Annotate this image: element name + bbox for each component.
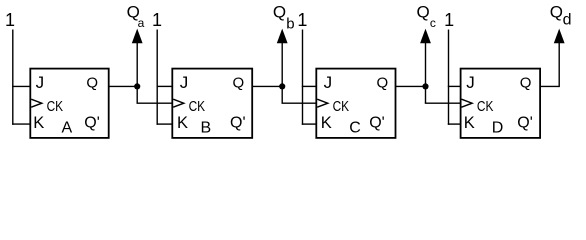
svg-text:c: c bbox=[430, 16, 436, 30]
junction dot (C) bbox=[422, 83, 428, 89]
wire: Q output (D) bbox=[540, 85, 559, 87]
svg-text:1: 1 bbox=[152, 10, 162, 30]
svg-text:D: D bbox=[492, 119, 504, 136]
svg-text:Q: Q bbox=[377, 75, 389, 92]
svg-text:CK: CK bbox=[47, 99, 64, 115]
svg-text:K: K bbox=[321, 114, 332, 132]
wire: output arrow stem Qb bbox=[281, 42, 283, 103]
wire: output arrow stem Qd bbox=[558, 42, 560, 87]
wire: output arrow stem Qc bbox=[425, 42, 427, 103]
svg-text:B: B bbox=[201, 119, 212, 136]
svg-text:Q: Q bbox=[86, 75, 98, 92]
svg-text:Q: Q bbox=[417, 3, 430, 22]
svg-text:K: K bbox=[177, 114, 188, 132]
wire: clock line to flip-flop D bbox=[425, 102, 461, 104]
JK flip-flop B body bbox=[172, 69, 252, 138]
wire: constant-1 vertical (A) bbox=[12, 30, 14, 125]
wire: J input (B) bbox=[157, 85, 173, 87]
svg-text:J: J bbox=[324, 73, 333, 92]
svg-text:d: d bbox=[563, 11, 572, 28]
svg-text:Q: Q bbox=[550, 3, 563, 22]
wire: K input (D) bbox=[448, 123, 461, 125]
svg-text:K: K bbox=[33, 114, 44, 132]
wire: K input (C) bbox=[302, 123, 317, 125]
wire: J input (A) bbox=[12, 85, 30, 87]
svg-text:a: a bbox=[138, 16, 145, 30]
svg-text:Q: Q bbox=[233, 75, 245, 92]
wire: constant-1 vertical (C) bbox=[302, 30, 304, 125]
wire: clock line to flip-flop C bbox=[282, 102, 317, 104]
wire: J input (C) bbox=[302, 85, 317, 87]
wire: Q output (B) bbox=[252, 85, 282, 87]
svg-text:C: C bbox=[349, 119, 361, 136]
svg-text:Q: Q bbox=[273, 3, 286, 22]
clock wedge C bbox=[317, 99, 328, 107]
svg-text:1: 1 bbox=[444, 10, 454, 30]
svg-text:J: J bbox=[36, 73, 45, 92]
svg-text:J: J bbox=[466, 73, 475, 92]
wire: output arrow stem Qa bbox=[136, 42, 138, 103]
wire: Q output (A) bbox=[109, 85, 138, 87]
svg-text:Q': Q' bbox=[517, 115, 533, 132]
svg-text:Q': Q' bbox=[230, 115, 246, 132]
junction dot (B) bbox=[279, 83, 285, 89]
wire: constant-1 vertical (D) bbox=[448, 30, 450, 125]
wire: constant-1 vertical (B) bbox=[156, 30, 158, 125]
wire: Q output (C) bbox=[396, 85, 426, 87]
svg-text:K: K bbox=[464, 114, 475, 132]
JK flip-flop C body bbox=[316, 69, 395, 138]
svg-text:Q': Q' bbox=[84, 115, 100, 132]
svg-text:1: 1 bbox=[5, 10, 15, 30]
wire: K input (A) bbox=[12, 123, 30, 125]
JK flip-flop D body bbox=[461, 69, 540, 138]
wire: clock line to flip-flop B bbox=[137, 102, 173, 104]
JK flip-flop A body bbox=[30, 69, 108, 138]
svg-text:CK: CK bbox=[333, 99, 350, 115]
svg-text:1: 1 bbox=[297, 10, 307, 30]
arrowhead Qd bbox=[554, 29, 565, 44]
junction dot (A) bbox=[134, 83, 140, 89]
svg-text:Q': Q' bbox=[369, 115, 385, 132]
arrowhead Qb bbox=[277, 29, 288, 44]
svg-text:A: A bbox=[62, 119, 73, 136]
arrowhead Qa bbox=[132, 29, 143, 44]
svg-text:J: J bbox=[180, 73, 189, 92]
clock wedge A bbox=[31, 99, 42, 107]
svg-text:CK: CK bbox=[189, 99, 206, 115]
wire: J input (D) bbox=[448, 85, 461, 87]
svg-text:Q: Q bbox=[520, 75, 532, 92]
wire: K input (B) bbox=[157, 123, 173, 125]
svg-text:b: b bbox=[286, 15, 294, 32]
svg-text:CK: CK bbox=[477, 99, 494, 115]
arrowhead Qc bbox=[420, 29, 431, 44]
clock wedge D bbox=[462, 99, 473, 107]
clock wedge B bbox=[173, 99, 184, 107]
